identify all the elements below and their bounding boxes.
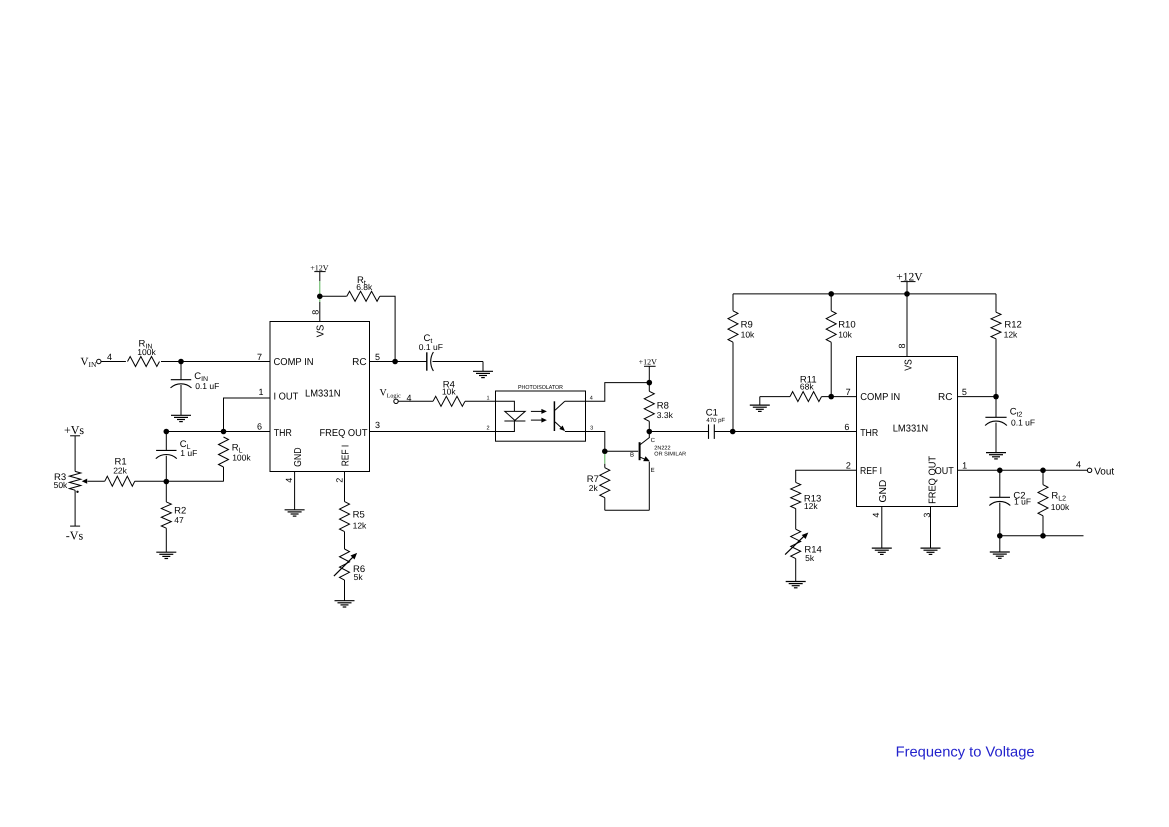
svg-text:12k: 12k <box>353 520 367 530</box>
pin 4 label <box>284 478 294 483</box>
svg-text:+Vs: +Vs <box>64 423 84 437</box>
wire <box>830 342 832 396</box>
svg-text:1 uF: 1 uF <box>1014 496 1031 506</box>
wire <box>795 559 797 582</box>
wire <box>180 385 182 415</box>
node RL2-top <box>1040 468 1046 474</box>
svg-text:1: 1 <box>962 461 967 471</box>
svg-text:1: 1 <box>258 387 263 397</box>
pin 5 label <box>375 352 380 362</box>
pin 6 label <box>844 422 849 432</box>
svg-text:FREQ OUT: FREQ OUT <box>928 456 939 504</box>
wire <box>995 294 997 312</box>
op-amp U2 LM331N <box>857 357 958 507</box>
pin 8 label <box>897 343 907 348</box>
wire <box>906 294 908 357</box>
resistor Rt <box>347 275 380 301</box>
svg-text:5: 5 <box>375 352 380 362</box>
svg-text:2: 2 <box>335 478 345 483</box>
svg-text:GND: GND <box>293 447 304 467</box>
wire (green) <box>604 454 606 464</box>
pin 7 label <box>846 387 851 397</box>
wire <box>166 431 270 433</box>
svg-text:VS: VS <box>903 359 914 371</box>
svg-text:RL2: RL2 <box>1051 491 1066 503</box>
svg-text:50k: 50k <box>54 480 68 490</box>
svg-text:12k: 12k <box>1004 330 1018 340</box>
wire <box>319 272 321 281</box>
svg-text:2: 2 <box>846 461 851 471</box>
terminal VLogic <box>380 388 402 404</box>
wire <box>733 293 996 295</box>
net label 4 <box>407 393 412 403</box>
svg-text:6: 6 <box>844 422 849 432</box>
svg-text:Frequency to Voltage: Frequency to Voltage <box>896 745 1035 761</box>
wire <box>165 456 167 482</box>
wire <box>605 450 638 452</box>
power +Vs <box>64 423 84 437</box>
wire <box>370 431 496 433</box>
svg-text:OR SIMILAR: OR SIMILAR <box>654 451 686 457</box>
wire <box>733 431 857 433</box>
capacitor CIN <box>171 371 220 391</box>
svg-text:+12V: +12V <box>310 263 329 272</box>
wire <box>465 400 496 402</box>
ground <box>750 405 770 411</box>
wire <box>165 482 167 502</box>
wire <box>74 490 76 526</box>
wire (green) <box>319 299 321 302</box>
LED inside U3 <box>504 411 525 421</box>
wire <box>161 361 270 363</box>
svg-text:+12V: +12V <box>639 358 658 367</box>
wire <box>760 397 790 406</box>
resistor R5 <box>340 502 368 532</box>
wire <box>223 467 225 482</box>
svg-text:RC: RC <box>938 392 952 403</box>
svg-text:470 pF: 470 pF <box>706 417 725 424</box>
resistor R13 <box>791 482 822 511</box>
wire <box>605 509 650 511</box>
node C1-R9 <box>730 429 736 435</box>
potentiometer R6 <box>334 549 365 582</box>
wire <box>648 366 650 382</box>
capacitor C2 <box>989 491 1031 507</box>
node THR-CL <box>164 429 170 435</box>
svg-text:COMP IN: COMP IN <box>274 357 314 368</box>
wire <box>344 532 346 549</box>
wire <box>648 383 650 392</box>
wire <box>999 536 1001 552</box>
photoisolator U3 <box>496 384 586 441</box>
wire <box>822 396 857 398</box>
svg-text:E: E <box>651 467 655 474</box>
resistor R11 <box>790 375 821 402</box>
node THR-RL <box>221 429 227 435</box>
wire <box>101 361 126 363</box>
pin 3 label <box>922 513 932 518</box>
svg-text:-Vs: -Vs <box>66 529 84 543</box>
wire <box>732 294 734 311</box>
node C2-bot <box>997 533 1003 539</box>
capacitor CL <box>156 439 198 459</box>
power -Vs <box>66 526 84 543</box>
svg-text:0.1 uF: 0.1 uF <box>1011 417 1035 427</box>
svg-text:3.3k: 3.3k <box>657 410 674 420</box>
resistor R7 <box>587 468 610 498</box>
wire <box>648 462 650 511</box>
wire <box>380 296 395 361</box>
wire <box>906 282 908 294</box>
wire <box>648 432 650 438</box>
ground <box>872 548 892 554</box>
pin 2 label <box>846 461 851 471</box>
svg-text:5k: 5k <box>354 572 364 582</box>
wire <box>294 472 296 510</box>
wire <box>1000 535 1084 537</box>
wire <box>999 470 1001 497</box>
wire <box>319 302 321 322</box>
wire <box>995 397 997 418</box>
wire <box>930 507 932 549</box>
resistor RIN <box>128 338 160 366</box>
svg-text:0.1 uF: 0.1 uF <box>195 381 219 391</box>
svg-text:4: 4 <box>871 513 881 518</box>
wire <box>995 423 997 453</box>
svg-text:5k: 5k <box>805 553 815 563</box>
wire <box>433 362 484 372</box>
wire <box>344 580 346 601</box>
wire <box>496 421 515 432</box>
resistor RL <box>219 437 252 467</box>
svg-text:R5: R5 <box>353 509 365 520</box>
power +12V <box>310 263 329 272</box>
ground <box>171 415 191 421</box>
wire <box>586 383 650 402</box>
wire <box>565 431 586 433</box>
wire <box>1042 470 1044 484</box>
resistor R9 <box>728 311 755 342</box>
node RL2-bot <box>1040 533 1046 539</box>
node R10-R11 <box>828 394 834 400</box>
svg-text:5: 5 <box>962 387 967 397</box>
wire <box>830 294 832 311</box>
wire <box>604 464 606 468</box>
transistor Q1 2N222 <box>630 437 686 474</box>
wire <box>135 480 224 482</box>
node CIN-top <box>178 359 184 365</box>
svg-text:VS: VS <box>315 324 326 337</box>
pin 8 label <box>310 310 320 315</box>
pin 6 label <box>257 422 262 432</box>
node RC2 <box>993 394 999 400</box>
resistor R1 <box>105 457 135 487</box>
title Frequency to Voltage <box>896 745 1035 761</box>
svg-text:I OUT: I OUT <box>274 392 299 403</box>
node CL-R1-R2 <box>164 479 170 485</box>
resistor R2 <box>161 502 186 528</box>
wire <box>320 295 347 297</box>
wire <box>881 507 883 549</box>
svg-text:6.8k: 6.8k <box>356 282 373 292</box>
pin 1 label <box>962 461 967 471</box>
pin 4 label <box>871 513 881 518</box>
opto pin 4 label <box>590 396 593 402</box>
wire <box>496 401 515 411</box>
svg-text:47: 47 <box>174 515 184 525</box>
wire <box>714 431 732 433</box>
wire <box>180 362 182 380</box>
wire <box>958 469 1088 471</box>
svg-text:COMP IN: COMP IN <box>860 392 900 403</box>
net label 4 <box>1076 460 1081 470</box>
node rail-12V <box>904 291 910 297</box>
wire <box>370 361 427 363</box>
opto pin 2 label <box>486 426 489 432</box>
svg-text:LM331N: LM331N <box>305 389 341 400</box>
svg-text:10k: 10k <box>741 330 755 340</box>
svg-text:7: 7 <box>257 352 262 362</box>
svg-text:8: 8 <box>897 343 907 348</box>
wire <box>732 342 734 431</box>
svg-text:3: 3 <box>590 426 593 432</box>
ground <box>986 453 1006 459</box>
pin 3 label <box>375 420 380 430</box>
pin 2 label <box>335 478 345 483</box>
capacitor Ct2 <box>985 406 1035 427</box>
svg-text:100k: 100k <box>137 347 156 357</box>
node RC-Rt <box>392 359 398 365</box>
svg-text:7: 7 <box>846 387 851 397</box>
power +12V <box>896 271 923 283</box>
terminal Vout <box>1087 466 1114 477</box>
resistor R4 <box>433 379 465 406</box>
ground <box>990 552 1010 558</box>
wire <box>165 528 167 552</box>
power +12V <box>639 358 658 367</box>
potentiometer R14 <box>785 529 822 563</box>
svg-text:0.1 uF: 0.1 uF <box>419 342 443 352</box>
ground <box>473 371 493 377</box>
svg-text:GND: GND <box>878 480 889 503</box>
svg-text:68k: 68k <box>800 382 814 392</box>
svg-text:THR: THR <box>274 428 292 439</box>
resistor R8 <box>644 391 673 421</box>
wire <box>165 432 167 451</box>
node Rt-12V <box>317 294 323 300</box>
light arrow <box>531 409 547 414</box>
svg-text:6: 6 <box>257 422 262 432</box>
svg-text:12k: 12k <box>804 501 818 511</box>
ground <box>335 601 355 607</box>
light arrow <box>531 418 547 423</box>
svg-text:1 uF: 1 uF <box>180 448 197 458</box>
svg-text:8: 8 <box>310 310 320 315</box>
phototransistor inside U3 <box>554 401 565 431</box>
svg-text:1: 1 <box>486 396 489 402</box>
potentiometer R3 <box>54 471 81 493</box>
svg-text:2k: 2k <box>589 483 599 493</box>
svg-text:PHOTOISOLATOR: PHOTOISOLATOR <box>518 384 563 391</box>
wire <box>649 431 708 433</box>
pin 1 label <box>258 387 263 397</box>
svg-text:THR: THR <box>860 428 878 439</box>
pin 7 label <box>257 352 262 362</box>
svg-text:C: C <box>651 437 656 444</box>
wire <box>224 398 271 432</box>
ground <box>285 510 305 516</box>
svg-text:VLogic: VLogic <box>380 388 402 400</box>
node 12V-R8 <box>647 380 653 386</box>
svg-text:22k: 22k <box>113 466 127 476</box>
ground <box>921 548 941 554</box>
op-amp U1 LM331N <box>270 322 370 472</box>
svg-text:3: 3 <box>375 420 380 430</box>
node rail-R10 <box>828 291 834 297</box>
ground <box>156 552 176 558</box>
wire (green) <box>319 281 321 293</box>
wire <box>648 421 650 431</box>
wire <box>796 470 857 482</box>
svg-text:LM331N: LM331N <box>893 423 929 434</box>
wire <box>74 436 76 472</box>
ground <box>786 582 806 588</box>
svg-text:10k: 10k <box>442 387 456 397</box>
capacitor C1 <box>706 408 726 439</box>
svg-text:RC: RC <box>352 357 366 368</box>
wire <box>604 498 606 511</box>
svg-text:10k: 10k <box>838 330 852 340</box>
svg-text:B: B <box>630 451 634 458</box>
wire <box>88 480 105 482</box>
svg-text:VIN: VIN <box>81 356 97 369</box>
svg-text:Vout: Vout <box>1094 466 1114 477</box>
svg-text:4: 4 <box>1076 460 1081 470</box>
wire <box>586 432 605 452</box>
wire <box>1042 516 1044 536</box>
wiper arrow of R3 <box>82 479 88 484</box>
terminal VIN <box>81 356 102 369</box>
svg-text:REF I: REF I <box>340 445 351 467</box>
opto pin 1 label <box>486 396 489 402</box>
opto pin 3 label <box>590 426 593 432</box>
wire <box>958 396 997 398</box>
svg-text:4: 4 <box>107 352 112 362</box>
wire <box>398 400 433 402</box>
node base <box>602 449 608 455</box>
wire <box>999 503 1001 536</box>
svg-text:FREQ OUT: FREQ OUT <box>320 428 368 439</box>
wire <box>344 472 346 502</box>
wire <box>795 509 797 530</box>
node C2-top <box>997 468 1003 474</box>
wire <box>995 339 997 397</box>
resistor R10 <box>826 311 855 342</box>
net label 4 <box>107 352 112 362</box>
svg-text:100k: 100k <box>232 452 251 462</box>
resistor RL2 <box>1038 485 1070 516</box>
capacitor Ct <box>419 333 443 371</box>
svg-text:REF I: REF I <box>860 466 882 477</box>
svg-text:100k: 100k <box>1051 502 1070 512</box>
svg-text:4: 4 <box>284 478 294 483</box>
node R8-C <box>647 429 653 435</box>
wire <box>565 400 586 402</box>
resistor R12 <box>991 312 1022 340</box>
svg-text:2: 2 <box>486 426 489 432</box>
pin 5 label <box>962 387 967 397</box>
